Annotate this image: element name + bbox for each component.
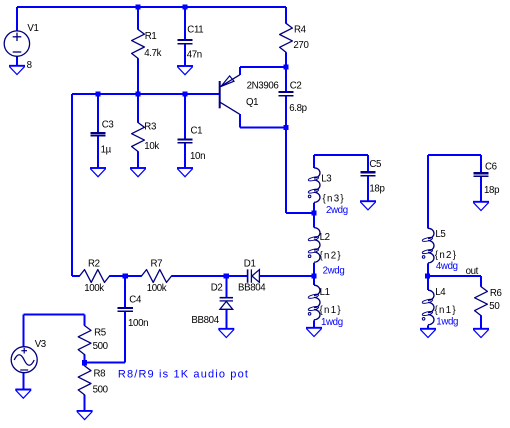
svg-text:R8/R9 is 1K audio pot: R8/R9 is 1K audio pot (118, 369, 249, 381)
svg-text:L1: L1 (320, 287, 330, 298)
svg-text:L5: L5 (435, 229, 445, 240)
svg-text:1wdg: 1wdg (321, 317, 343, 328)
svg-text:C1: C1 (191, 125, 203, 136)
svg-text:18p: 18p (484, 185, 499, 196)
svg-text:1wdg: 1wdg (436, 317, 458, 328)
svg-text:L4: L4 (435, 287, 446, 298)
svg-text:BB804: BB804 (238, 283, 266, 294)
svg-text:18p: 18p (369, 183, 384, 194)
svg-text:{n2}: {n2} (320, 250, 342, 261)
svg-text:R1: R1 (145, 31, 157, 42)
svg-text:100k: 100k (147, 283, 167, 294)
svg-text:C2: C2 (290, 80, 302, 91)
svg-text:10n: 10n (190, 151, 205, 162)
svg-text:6.8p: 6.8p (289, 103, 306, 114)
svg-text:Q1: Q1 (246, 97, 258, 108)
svg-text:4wdg: 4wdg (436, 261, 458, 272)
svg-text:2N3906: 2N3906 (247, 81, 279, 92)
svg-text:L2: L2 (320, 232, 330, 243)
svg-text:8: 8 (27, 60, 32, 71)
svg-text:R2: R2 (88, 259, 100, 270)
svg-text:BB804: BB804 (191, 315, 219, 326)
svg-text:100k: 100k (84, 283, 104, 294)
svg-text:R4: R4 (294, 25, 307, 36)
svg-text:L3: L3 (321, 173, 331, 184)
svg-text:100n: 100n (128, 318, 148, 329)
svg-text:C11: C11 (187, 25, 203, 36)
svg-text:V1: V1 (27, 23, 38, 34)
svg-text:500: 500 (93, 385, 109, 396)
svg-text:10k: 10k (144, 141, 159, 152)
svg-text:C5: C5 (369, 159, 381, 170)
svg-text:2wdg: 2wdg (323, 266, 345, 277)
svg-text:47n: 47n (187, 49, 202, 60)
svg-text:R5: R5 (94, 328, 106, 339)
svg-text:{n1}: {n1} (435, 305, 457, 316)
svg-text:2wdg: 2wdg (326, 205, 348, 216)
svg-text:R3: R3 (144, 122, 156, 133)
svg-text:out: out (466, 266, 479, 277)
svg-text:500: 500 (93, 341, 109, 352)
svg-text:1µ: 1µ (101, 144, 112, 155)
svg-text:R6: R6 (490, 288, 502, 299)
svg-text:V3: V3 (35, 339, 46, 350)
svg-text:C4: C4 (129, 295, 142, 306)
svg-text:R8: R8 (94, 369, 106, 380)
svg-text:D1: D1 (244, 258, 256, 269)
svg-text:C3: C3 (102, 120, 114, 131)
svg-text:R7: R7 (151, 259, 163, 270)
svg-text:C6: C6 (485, 161, 497, 172)
svg-text:D2: D2 (211, 283, 223, 294)
svg-text:{n3}: {n3} (323, 193, 345, 204)
svg-text:270: 270 (293, 40, 309, 51)
svg-text:{n2}: {n2} (435, 250, 457, 261)
svg-text:{n1}: {n1} (320, 305, 342, 316)
svg-text:50: 50 (489, 301, 500, 312)
svg-text:4.7k: 4.7k (144, 48, 161, 59)
